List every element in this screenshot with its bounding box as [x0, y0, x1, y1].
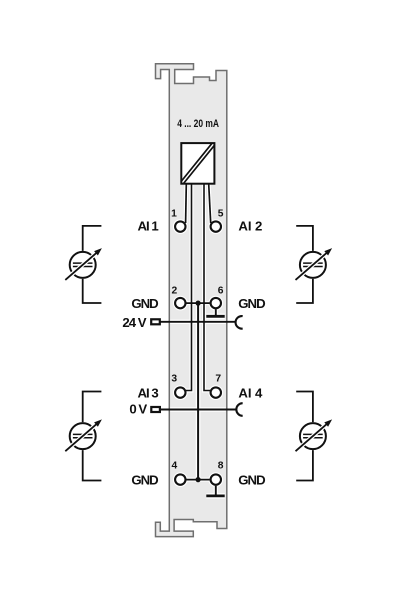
svg-text:GND: GND	[131, 472, 158, 487]
svg-text:0 V: 0 V	[129, 401, 147, 416]
svg-text:8: 8	[218, 460, 224, 471]
svg-text:AI 3: AI 3	[138, 385, 159, 400]
svg-text:4: 4	[172, 460, 178, 471]
svg-text:GND: GND	[238, 296, 265, 311]
svg-text:AI 2: AI 2	[238, 218, 262, 233]
svg-text:7: 7	[215, 374, 221, 385]
svg-text:AI 4: AI 4	[238, 385, 263, 400]
svg-text:GND: GND	[131, 296, 158, 311]
svg-text:1: 1	[171, 209, 177, 220]
svg-text:3: 3	[171, 374, 177, 385]
svg-text:AI 1: AI 1	[138, 218, 159, 233]
svg-text:24 V: 24 V	[122, 315, 146, 330]
svg-text:GND: GND	[238, 472, 265, 487]
svg-text:5: 5	[218, 209, 224, 220]
svg-text:4 ... 20 mA: 4 ... 20 mA	[177, 118, 219, 130]
svg-text:6: 6	[218, 286, 224, 297]
svg-text:2: 2	[172, 286, 178, 297]
